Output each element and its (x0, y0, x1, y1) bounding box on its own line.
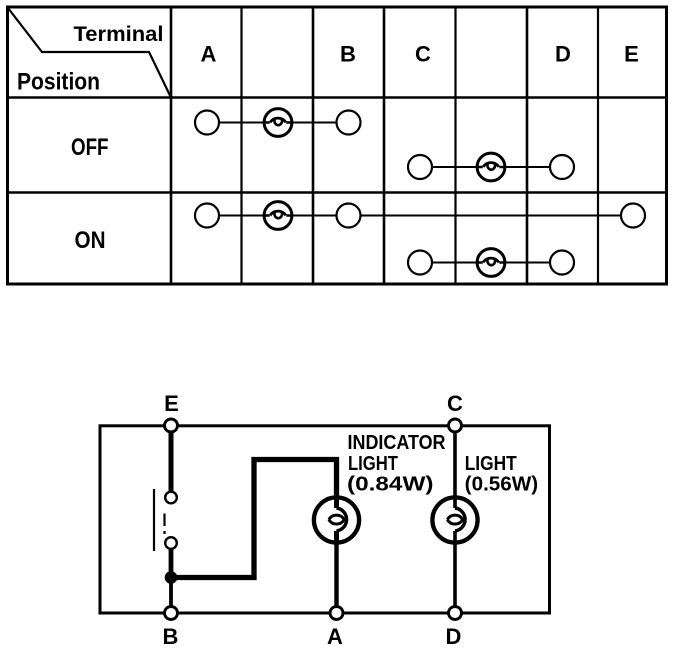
svg-text:E: E (624, 42, 639, 67)
svg-text:D: D (446, 624, 462, 649)
svg-text:LIGHT: LIGHT (348, 453, 398, 475)
svg-text:Terminal: Terminal (74, 23, 164, 46)
svg-text:C: C (415, 42, 431, 67)
svg-text:Position: Position (17, 69, 100, 96)
svg-text:(0.56W): (0.56W) (465, 474, 539, 496)
svg-text:ON: ON (75, 227, 106, 254)
svg-text:B: B (163, 624, 179, 649)
svg-text:E: E (164, 391, 179, 416)
svg-text:C: C (447, 391, 463, 416)
svg-text:LIGHT: LIGHT (465, 453, 517, 475)
svg-text:(0.84W): (0.84W) (347, 474, 434, 496)
svg-text:D: D (555, 42, 571, 67)
svg-text:A: A (327, 624, 343, 649)
svg-text:INDICATOR: INDICATOR (348, 432, 446, 454)
svg-text:OFF: OFF (71, 134, 109, 161)
svg-text:A: A (201, 42, 217, 67)
svg-text:B: B (340, 42, 356, 67)
